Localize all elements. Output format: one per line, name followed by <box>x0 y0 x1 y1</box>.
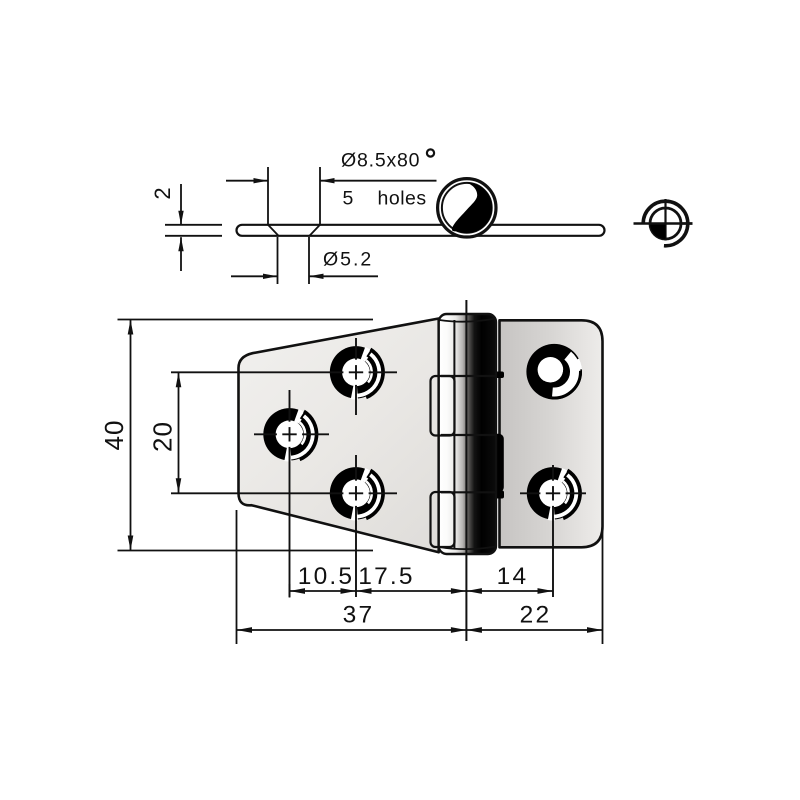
dim 2 extension lines <box>165 224 222 226</box>
svg-text:17.5: 17.5 <box>358 563 414 590</box>
knuckle bottom cap line <box>440 547 496 550</box>
svg-text:Ø8.5x80: Ø8.5x80 <box>341 150 420 172</box>
svg-text:holes: holes <box>378 188 427 210</box>
dim 8.5 extension line left <box>267 167 269 226</box>
dim 40 extension bottom <box>118 550 374 552</box>
dim 22 extension right <box>602 530 604 644</box>
knuckle inner contour line <box>453 320 455 548</box>
right plate notch lower <box>494 491 504 499</box>
svg-text:40: 40 <box>99 420 129 451</box>
svg-text:37: 37 <box>343 602 375 629</box>
dim 37 arrows <box>237 627 253 633</box>
tick at 289.5 <box>289 584 291 598</box>
dim 10.5 arrows <box>290 588 306 594</box>
dim 5.2 arrow right <box>309 275 378 277</box>
countersink cross-section right slant <box>310 225 321 236</box>
dim 17.5 arrows <box>356 588 372 594</box>
hole C countersunk (left bottom) with centerlines+20dim ext <box>330 467 382 519</box>
dim 20 line <box>178 372 180 493</box>
right leaf plate outline <box>500 320 603 547</box>
knuckle segment upper-left outline <box>431 376 455 436</box>
dim row line 10.5/17.5/14 <box>290 590 554 592</box>
knuckle division line 1 <box>441 375 496 377</box>
hole D plain (right top) <box>526 344 582 400</box>
right plate notch upper <box>494 372 504 379</box>
pin end view axis overline <box>649 222 693 224</box>
hinge plate side profile <box>237 225 605 236</box>
dim 2 arrow top <box>180 184 182 225</box>
dim 22 arrows <box>466 627 482 633</box>
pin end view axis line <box>634 222 693 224</box>
hinge knuckle side view outer circle <box>438 179 496 237</box>
dim 8.5 leader line <box>320 180 437 182</box>
dim 2 arrow bottom <box>180 237 182 271</box>
knuckle barrel body <box>439 314 496 554</box>
left leaf plate outline <box>239 319 439 553</box>
svg-text:2: 2 <box>150 187 175 199</box>
svg-text:14: 14 <box>497 563 529 590</box>
knuckle top cap line <box>440 319 496 322</box>
countersink cross-section left slant <box>268 225 279 236</box>
hole A countersunk (left top) with centerlines+20dim ext <box>330 346 382 398</box>
dim 40 extension top <box>118 319 374 321</box>
hinge knuckle side view inner circle <box>442 183 492 233</box>
dim row line 37/22 <box>237 629 603 631</box>
dim 5.2 extension line left <box>277 237 279 284</box>
pin end view vertical centerline <box>664 199 666 241</box>
svg-text:Ø5.2: Ø5.2 <box>323 249 373 271</box>
dim 8.5 arrow left <box>226 180 268 182</box>
dim 5.2 extension line right <box>308 237 310 284</box>
knuckle division line 3 <box>441 491 496 493</box>
svg-text:5: 5 <box>343 188 354 210</box>
svg-text:22: 22 <box>520 602 552 629</box>
knuckle segment lower-left outline <box>431 492 455 547</box>
hinge knuckle rolled metal section <box>452 182 492 233</box>
dim 8.5 extension line right <box>319 167 321 226</box>
hinge centerline <box>465 300 467 641</box>
knuckle segment middle-right dark <box>466 434 504 493</box>
svg-text:10.5: 10.5 <box>298 563 354 590</box>
knuckle division line 2 <box>441 434 496 436</box>
dim 14 arrows <box>466 588 482 594</box>
hole E countersunk (right bottom) with centerlines <box>527 467 579 519</box>
dim 40 line <box>130 320 132 551</box>
pin end view rolled leaf arc <box>643 201 688 246</box>
dim 37 extension left <box>236 510 238 644</box>
dim 5.2 arrow left <box>231 275 278 277</box>
pin end view filled quadrant <box>650 224 666 240</box>
svg-text:20: 20 <box>148 421 178 452</box>
pin end view inner circle <box>650 208 681 239</box>
hole B countersunk (left middle) with centerlines <box>263 408 315 460</box>
